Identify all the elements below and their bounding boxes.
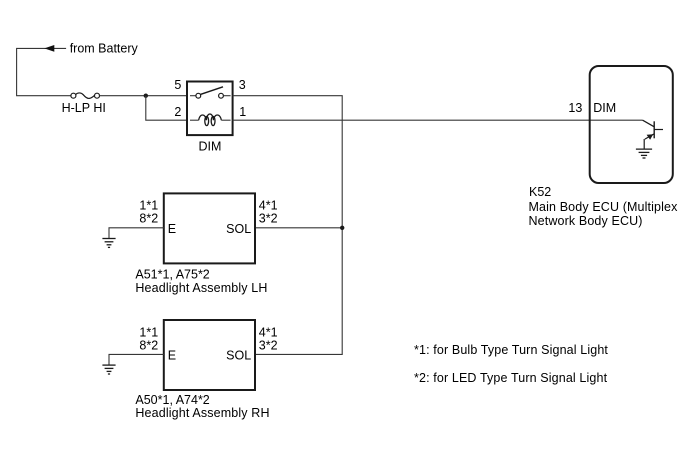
svg-text:8*2: 8*2 (139, 212, 158, 226)
RH pin label 1*1 (139, 325, 158, 339)
label: Headlight Assembly RH (135, 406, 269, 420)
svg-text:1*1: 1*1 (139, 325, 158, 339)
relay switch contact (190, 87, 231, 98)
relay DIM box (187, 82, 233, 136)
svg-text:3: 3 (239, 78, 246, 92)
RH terminal label SOL (226, 349, 251, 363)
relay pin 1 label (239, 105, 246, 119)
relay pin 2 label (174, 105, 181, 119)
svg-text:E: E (168, 222, 176, 236)
wire: junction down to relay pin 2 (146, 96, 187, 121)
svg-text:Headlight Assembly RH: Headlight Assembly RH (135, 406, 269, 420)
svg-text:Main Body ECU (Multiplex: Main Body ECU (Multiplex (529, 200, 679, 214)
svg-text:DIM: DIM (199, 139, 222, 153)
svg-text:A50*1, A74*2: A50*1, A74*2 (135, 393, 209, 407)
wire: RH E to ground (109, 354, 164, 365)
LH pin label 1*1 (139, 199, 158, 213)
svg-text:E: E (168, 349, 176, 363)
svg-text:from Battery: from Battery (70, 41, 139, 55)
svg-text:3*2: 3*2 (259, 212, 278, 226)
svg-text:5: 5 (174, 78, 181, 92)
LH terminal label SOL (226, 222, 251, 236)
LH terminal label E (168, 222, 176, 236)
RH pin label 3*2 (259, 338, 278, 352)
RH pin label 4*1 (259, 325, 278, 339)
svg-text:SOL: SOL (226, 222, 251, 236)
svg-text:Network Body ECU): Network Body ECU) (529, 214, 643, 228)
svg-text:2: 2 (174, 105, 181, 119)
label: A51*1, A75*2 (135, 268, 209, 282)
junction node on solenoid bus (340, 226, 344, 230)
svg-text:1*1: 1*1 (139, 199, 158, 213)
headlight assembly LH box (164, 193, 255, 263)
wire: LH SOL to bus (255, 227, 342, 229)
wire: relay pin 3 to solenoid bus (233, 96, 343, 355)
svg-text:4*1: 4*1 (259, 325, 278, 339)
label: Main Body ECU (Multiplex (529, 200, 679, 214)
svg-text:4*1: 4*1 (259, 199, 278, 213)
fuse H-LP HI (71, 93, 100, 99)
svg-text:*2: for LED Type Turn Signal L: *2: for LED Type Turn Signal Light (414, 371, 608, 385)
svg-text:K52: K52 (529, 185, 551, 199)
ECU pin 13 label (568, 101, 582, 115)
label: H-LP HI (62, 101, 106, 115)
label: K52 (529, 185, 551, 199)
ground: LH headlight (102, 239, 115, 248)
ground: RH headlight (102, 365, 115, 374)
RH pin label 8*2 (139, 338, 158, 352)
label: A50*1, A74*2 (135, 393, 209, 407)
svg-text:13: 13 (568, 101, 582, 115)
ground: inside ECU (636, 149, 652, 158)
label: DIM (relay name) (199, 139, 222, 153)
label: Network Body ECU) (529, 214, 643, 228)
svg-text:3*2: 3*2 (259, 338, 278, 352)
LH pin label 8*2 (139, 212, 158, 226)
wire: fuse to relay pin 5 (100, 95, 188, 97)
note: *1 bulb type (414, 343, 608, 357)
svg-text:8*2: 8*2 (139, 338, 158, 352)
LH pin label 3*2 (259, 212, 278, 226)
relay coil (190, 114, 231, 126)
ECU pin name DIM (593, 101, 616, 115)
svg-text:1: 1 (239, 105, 246, 119)
relay pin 5 label (174, 78, 181, 92)
svg-text:*1: for Bulb Type Turn Signal: *1: for Bulb Type Turn Signal Light (414, 343, 608, 357)
RH terminal label E (168, 349, 176, 363)
svg-text:SOL: SOL (226, 349, 251, 363)
label: Headlight Assembly LH (135, 281, 267, 295)
relay pin 3 label (239, 78, 246, 92)
transistor Q (ECU output) (643, 120, 663, 140)
svg-text:H-LP HI: H-LP HI (62, 101, 106, 115)
svg-text:A51*1, A75*2: A51*1, A75*2 (135, 268, 209, 282)
wire: relay pin 1 to ECU pin 13 (233, 119, 643, 121)
wire: emitter to ECU ground (643, 139, 645, 149)
headlight assembly RH box (164, 320, 255, 390)
arrow: from Battery direction arrow (44, 45, 54, 52)
wire: battery feed (down-left from arrow to fuse) (17, 48, 71, 95)
ECU K52 box (590, 66, 673, 183)
wire: LH E to ground (109, 228, 164, 239)
LH pin label 4*1 (259, 199, 278, 213)
svg-text:DIM: DIM (593, 101, 616, 115)
note: *2 LED type (414, 371, 608, 385)
svg-text:Headlight Assembly LH: Headlight Assembly LH (135, 281, 267, 295)
label: from Battery (70, 41, 139, 55)
junction node at relay input (144, 94, 148, 98)
